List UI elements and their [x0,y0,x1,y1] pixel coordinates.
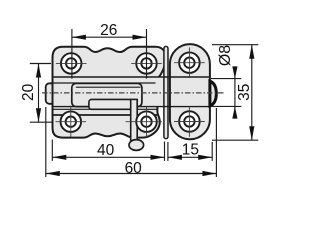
svg-text:60: 60 [125,160,143,177]
svg-text:40: 40 [97,142,115,159]
svg-text:Ø8: Ø8 [217,45,234,66]
svg-text:26: 26 [100,22,117,39]
svg-text:35: 35 [236,84,253,101]
svg-text:20: 20 [20,83,37,101]
svg-text:15: 15 [182,142,199,159]
